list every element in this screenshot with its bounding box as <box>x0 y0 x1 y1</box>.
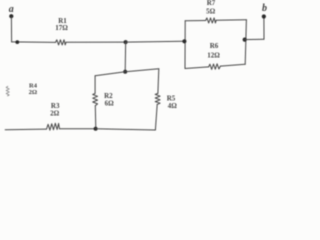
parallel block left side <box>184 21 186 69</box>
wire block top edge right <box>216 19 246 22</box>
wire R5 lower lead <box>155 104 157 129</box>
node b terminal dot <box>262 14 266 18</box>
svg-text:b: b <box>262 3 267 14</box>
svg-text:2Ω: 2Ω <box>50 110 60 118</box>
svg-text:R5: R5 <box>167 94 176 102</box>
svg-text:2Ω: 2Ω <box>29 89 37 96</box>
resistor R5 zigzag <box>155 93 160 104</box>
svg-text:a: a <box>9 4 14 15</box>
svg-text:R7: R7 <box>207 0 216 7</box>
wire bottom left <box>5 128 46 131</box>
wire a vertical <box>10 17 12 42</box>
wire center junction to block <box>126 40 185 43</box>
wire block top edge left <box>185 20 205 22</box>
svg-text:12Ω: 12Ω <box>207 52 220 60</box>
svg-text:4Ω: 4Ω <box>168 102 178 110</box>
node a terminal dot <box>9 14 13 18</box>
wire center vertical down <box>124 42 126 72</box>
wire bottom right <box>96 129 156 130</box>
svg-text:5Ω: 5Ω <box>206 7 216 15</box>
junction dot center top <box>124 40 128 44</box>
svg-text:17Ω: 17Ω <box>55 24 68 32</box>
wire R2 upper lead <box>94 76 96 94</box>
wire top-left horizontal <box>12 41 56 44</box>
junction dot block right <box>243 38 247 42</box>
junction dot block left <box>182 39 186 43</box>
junction dot bottom <box>94 127 98 131</box>
resistor R6 zigzag <box>209 64 221 70</box>
resistor R4 zigzag fragment <box>6 86 9 96</box>
wire R5 upper lead <box>157 69 160 94</box>
wire R1 to center junction <box>66 41 126 43</box>
junction dot middle rect top <box>123 70 127 74</box>
parallel block right side <box>245 20 246 65</box>
svg-text:6Ω: 6Ω <box>105 99 115 107</box>
junction dot near a <box>15 40 19 44</box>
svg-text:R6: R6 <box>210 42 219 50</box>
wire block to b corner <box>245 38 264 40</box>
wire R3 to bottom junction <box>60 128 96 130</box>
wire middle rect top edge <box>95 69 159 76</box>
resistor R1 zigzag <box>56 40 67 45</box>
wire block bottom edge right <box>220 64 245 66</box>
resistor R7 zigzag <box>206 18 217 23</box>
wire b vertical <box>263 17 265 39</box>
wire block bottom edge left <box>185 67 209 69</box>
wire R2 lower lead <box>94 106 97 129</box>
resistor R2 zigzag <box>93 93 98 105</box>
resistor R3 zigzag <box>47 123 60 130</box>
